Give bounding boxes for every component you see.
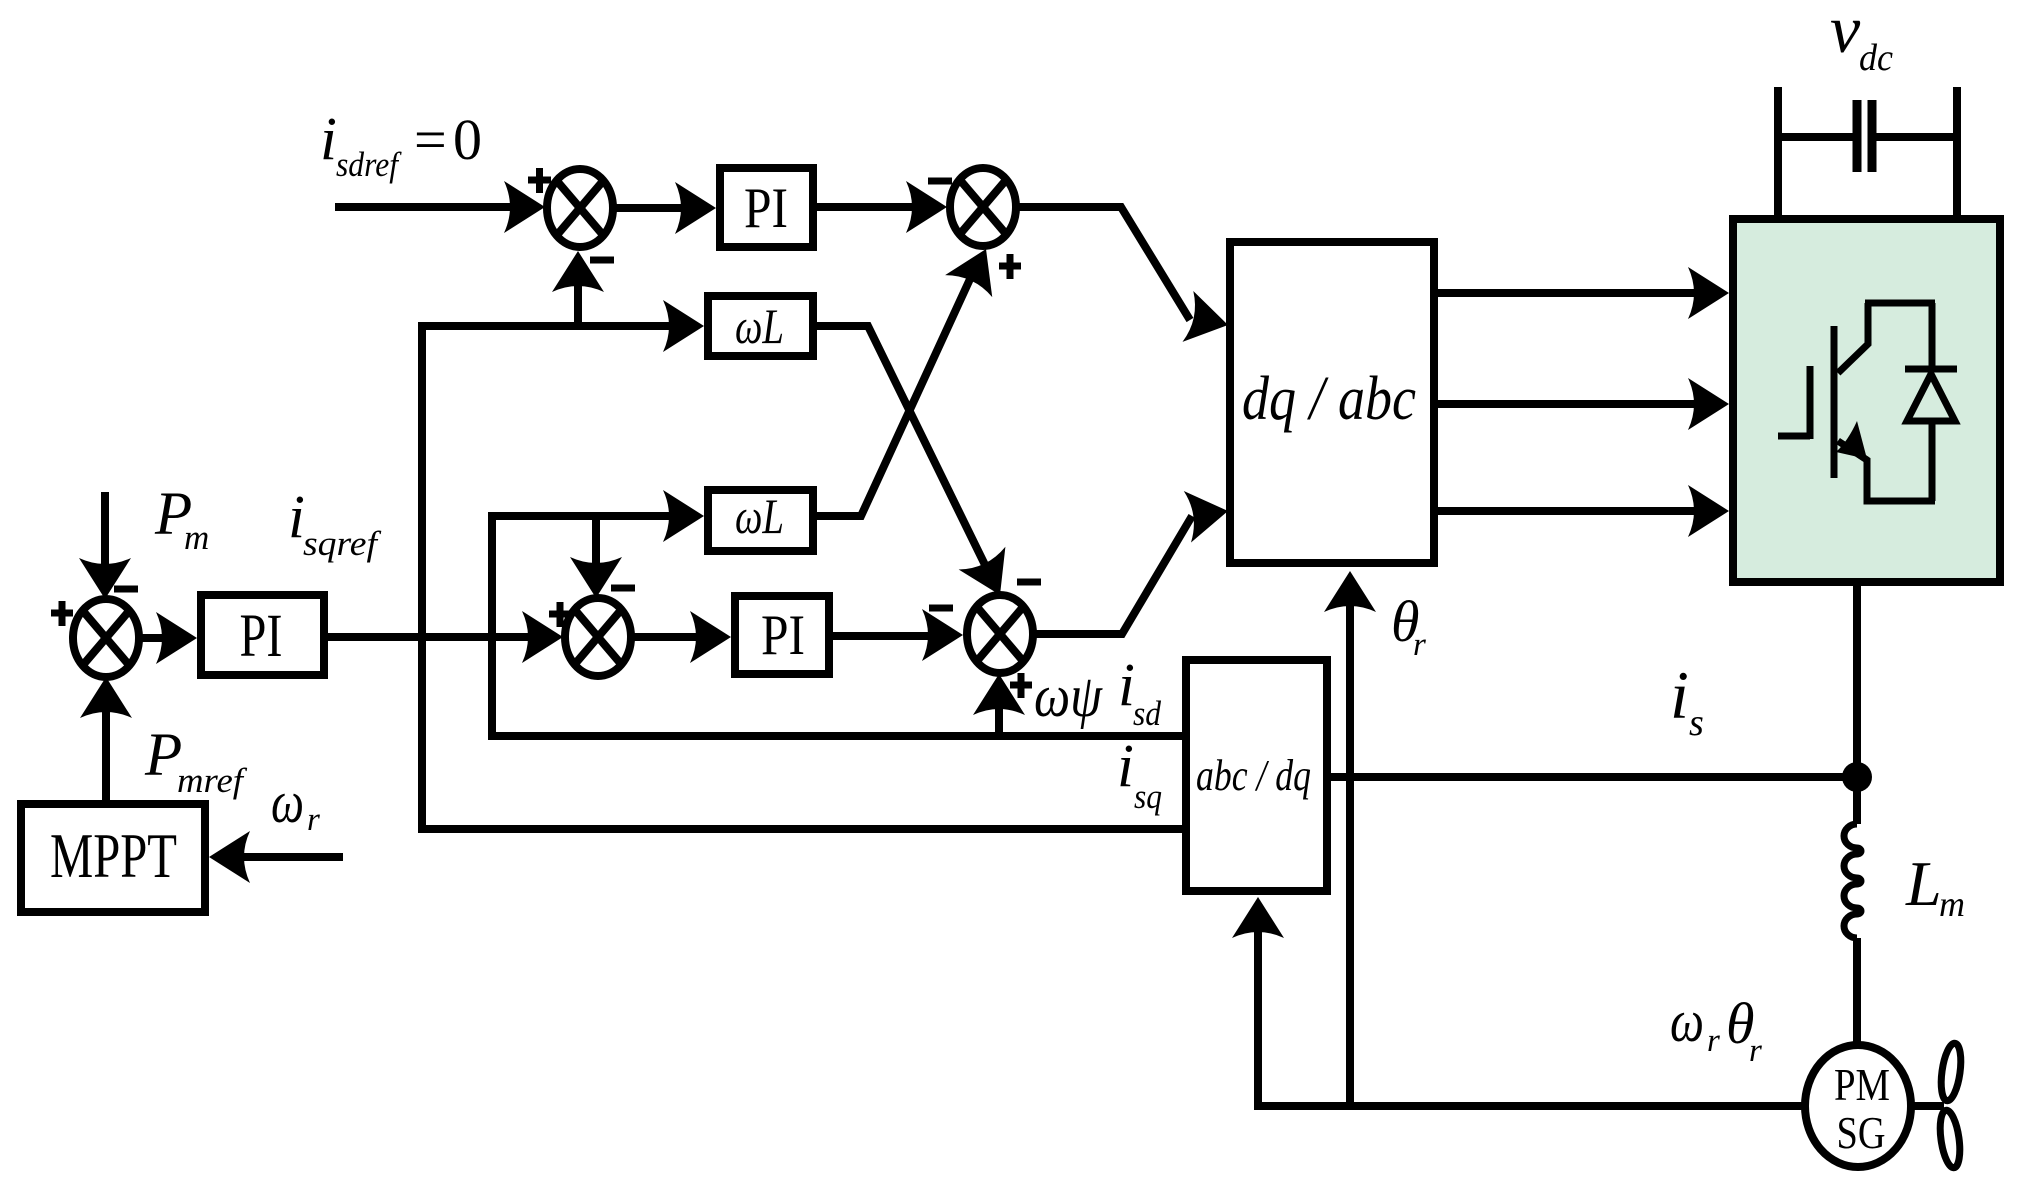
plus sign S4 bottom: [1010, 673, 1032, 698]
svg-text:ωL: ωL: [735, 298, 784, 354]
svg-text:PM: PM: [1834, 1059, 1890, 1110]
plus sign S2: [999, 254, 1021, 279]
PI block PI1: [720, 168, 813, 247]
summing junction S0: [73, 599, 139, 677]
wire branch up into S1: [574, 270, 582, 326]
wire Pm input: [101, 492, 109, 580]
propeller blade lower: [1937, 1109, 1963, 1169]
svg-text:sqref: sqref: [303, 524, 382, 563]
minus sign S4 left: [929, 605, 953, 612]
IGBT emitter arrowhead: [1836, 421, 1867, 459]
wire converter output down: [1853, 586, 1861, 824]
wire inductor to PMSG: [1853, 938, 1861, 1044]
svg-text:i: i: [320, 106, 337, 173]
summing junction S3: [565, 598, 631, 676]
PI block PIM: [735, 596, 829, 674]
wire S3 to PIM: [631, 633, 705, 641]
svg-text:m: m: [184, 518, 209, 557]
wire PI1 to S2: [817, 203, 920, 211]
diode D1: [1905, 369, 1957, 421]
svg-text:L: L: [1905, 848, 1942, 919]
minus sign S4 top: [1017, 579, 1041, 586]
dc bus left stub: [1774, 87, 1782, 219]
summing junction S1: [547, 169, 613, 247]
wire PIL to S3: [328, 633, 540, 641]
svg-text:r: r: [1707, 1023, 1720, 1059]
capacitor Cdc: [1778, 133, 1853, 141]
svg-text:abc / dq: abc / dq: [1196, 751, 1311, 800]
node junction dot: [1842, 762, 1872, 792]
propeller blade upper: [1938, 1042, 1964, 1102]
minus sign S3 top: [611, 585, 635, 592]
svg-text:dc: dc: [1859, 37, 1893, 79]
omega-L block wL1: [708, 296, 813, 356]
svg-text:i: i: [1670, 657, 1689, 733]
svg-text:v: v: [1830, 0, 1861, 67]
svg-text:PI: PI: [761, 604, 805, 667]
summing junction S4: [967, 595, 1033, 673]
svg-text:r: r: [1749, 1033, 1762, 1069]
dc bus right stub: [1953, 87, 1961, 219]
svg-text:sq: sq: [1134, 777, 1162, 816]
svg-text:i: i: [1117, 733, 1134, 800]
wire MPPT up to S0: [102, 696, 110, 800]
wire dq/abc out a: [1438, 289, 1700, 297]
wire isdref input: [335, 203, 520, 211]
svg-text:mref: mref: [177, 761, 247, 800]
plus sign S3: [549, 602, 571, 627]
svg-text:PI: PI: [744, 177, 788, 240]
wire wL2 to S2 (diagonal up): [813, 266, 976, 516]
wire PMSG feedback: [1258, 916, 1802, 1106]
converter block (green): [1733, 219, 2000, 582]
minus sign S0: [114, 586, 138, 593]
wire isq feedback (lower horizontal to left riser): [422, 326, 1182, 829]
wire wL1 to S4 (diagonal down): [817, 326, 988, 571]
svg-text:sd: sd: [1133, 694, 1161, 733]
minus sign S1: [590, 257, 614, 264]
wire omega-psi into S4 bottom: [995, 692, 1003, 736]
wire isd feedback (mid horizontal to left riser): [492, 516, 1182, 736]
wire PMSG shaft: [1911, 1102, 1944, 1110]
svg-text:ωψ: ωψ: [1034, 663, 1103, 729]
svg-text:=: =: [414, 107, 447, 172]
wire dq/abc out c: [1438, 507, 1700, 515]
wire theta_r up into dq/abc: [1346, 590, 1354, 1106]
svg-text:0: 0: [453, 107, 482, 172]
generator PMSG: [1805, 1045, 1911, 1167]
minus sign S2: [928, 178, 952, 185]
svg-text:dq / abc: dq / abc: [1242, 365, 1416, 433]
wire branch down into S3: [592, 516, 600, 580]
wire S4 to dq/abc: [1033, 516, 1192, 634]
dq/abc block: [1230, 242, 1434, 563]
svg-text:MPPT: MPPT: [50, 820, 177, 891]
omega-L block wL2: [708, 490, 813, 551]
svg-text:sdref: sdref: [336, 145, 402, 184]
MPPT block: [21, 804, 205, 912]
wire dq/abc out b: [1438, 400, 1700, 408]
svg-text:SG: SG: [1837, 1107, 1886, 1158]
wire omega_r into MPPT: [234, 853, 343, 861]
plus sign S0: [51, 601, 73, 626]
svg-text:ωL: ωL: [735, 488, 784, 544]
svg-text:PI: PI: [240, 603, 283, 670]
wire S2 to dq/abc: [1019, 207, 1190, 320]
svg-text:r: r: [1413, 627, 1426, 663]
abc/dq block: [1186, 660, 1327, 891]
IGBT symbol: [1778, 303, 1935, 501]
summing junction S2: [950, 168, 1016, 246]
svg-text:s: s: [1689, 702, 1704, 744]
svg-text:ω: ω: [1670, 988, 1704, 1054]
PI block PIL: [201, 595, 324, 675]
svg-text:m: m: [1939, 884, 1965, 924]
svg-text:r: r: [307, 802, 320, 838]
wire S0 to PIL: [139, 634, 172, 642]
wire i_s to abc/dq: [1331, 773, 1850, 781]
wire S1 to PI1: [613, 204, 690, 212]
wire PIM to S4: [829, 632, 938, 640]
plus sign S1: [528, 168, 551, 193]
inductor Lm: [1844, 824, 1861, 938]
svg-text:ω: ω: [271, 769, 304, 835]
